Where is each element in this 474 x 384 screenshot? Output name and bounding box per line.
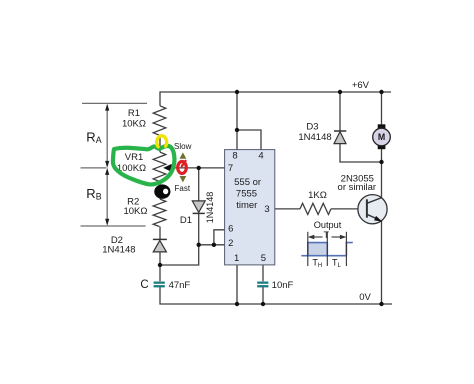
svg-text:1N4148: 1N4148 bbox=[205, 192, 215, 224]
svg-text:1N4148: 1N4148 bbox=[102, 244, 135, 255]
svg-text:Slow: Slow bbox=[174, 142, 192, 151]
svg-text:10KΩ: 10KΩ bbox=[123, 206, 147, 217]
svg-text:1KΩ: 1KΩ bbox=[308, 190, 327, 201]
svg-text:10nF: 10nF bbox=[272, 280, 294, 291]
svg-text:47nF: 47nF bbox=[169, 280, 191, 291]
svg-text:VR1: VR1 bbox=[125, 152, 143, 163]
svg-text:1N4148: 1N4148 bbox=[298, 132, 331, 143]
svg-text:R1: R1 bbox=[128, 108, 140, 119]
svg-text:timer: timer bbox=[236, 200, 257, 211]
svg-text:4: 4 bbox=[258, 150, 263, 161]
svg-text:7: 7 bbox=[228, 163, 233, 174]
svg-text:D1: D1 bbox=[180, 215, 192, 226]
svg-text:1: 1 bbox=[234, 253, 239, 264]
svg-text:2: 2 bbox=[228, 238, 233, 249]
svg-text:C: C bbox=[140, 279, 148, 291]
svg-text:T: T bbox=[324, 230, 330, 240]
svg-text:555 or: 555 or bbox=[234, 177, 261, 188]
svg-text:Output: Output bbox=[314, 220, 342, 230]
svg-text:5: 5 bbox=[261, 253, 266, 264]
svg-text:7555: 7555 bbox=[236, 188, 257, 199]
svg-text:10KΩ: 10KΩ bbox=[122, 118, 146, 129]
svg-text:M: M bbox=[378, 132, 385, 142]
svg-text:3: 3 bbox=[264, 204, 269, 215]
svg-text:Fast: Fast bbox=[175, 184, 191, 193]
svg-text:+6V: +6V bbox=[352, 80, 370, 91]
svg-text:8: 8 bbox=[232, 150, 237, 161]
svg-text:0V: 0V bbox=[359, 292, 371, 303]
svg-text:or similar: or similar bbox=[338, 182, 377, 193]
svg-text:D3: D3 bbox=[306, 122, 318, 133]
svg-text:6: 6 bbox=[228, 224, 233, 235]
